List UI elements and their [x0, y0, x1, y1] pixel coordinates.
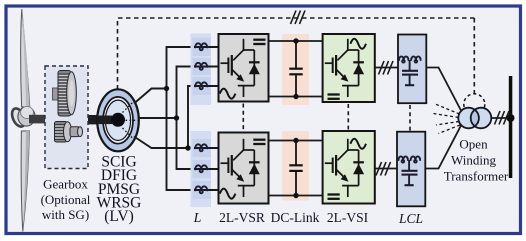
- wire transformer to grid bus: [491, 117, 509, 119]
- svg-text:Winding: Winding: [451, 153, 496, 168]
- generator terminal wire C with bottom phase a wire: [134, 137, 195, 149]
- DC-link highlight strip bottom: [282, 131, 309, 201]
- gearbox big gear: [53, 71, 77, 117]
- svg-text:2L-VSR: 2L-VSR: [219, 210, 265, 225]
- label: Gearbox (Optional with SG): [41, 177, 91, 223]
- svg-text:Transformer: Transformer: [444, 169, 509, 184]
- generator terminal wire B: [139, 117, 177, 119]
- wind turbine third blade ring: [9, 106, 27, 128]
- inductor L5: [195, 165, 207, 172]
- U1 IGBT and diode internals: [220, 39, 266, 99]
- three-phase slashes on dashed line: [291, 11, 306, 25]
- L filter highlight strip top: [191, 34, 212, 106]
- DC-link highlight strip top: [282, 34, 309, 105]
- svg-text:(Optional: (Optional: [41, 192, 91, 207]
- dashed feedback drop to phantom winding: [473, 18, 475, 94]
- gearbox dashed enclosure: [45, 66, 88, 169]
- DC rails bottom row: [269, 141, 323, 196]
- gearbox small gear: [55, 122, 83, 143]
- wind turbine hub: [18, 107, 35, 127]
- dashed rays of open winding: [434, 104, 461, 134]
- junction dot C: [185, 145, 190, 150]
- LCL filter box bottom: [397, 132, 425, 207]
- grid bus bar: [509, 76, 513, 178]
- inductor L6: [195, 186, 207, 193]
- dashed link between LCL boxes: [409, 105, 411, 131]
- grid bus junction dot: [507, 114, 515, 122]
- three-phase slashes bottom row: [376, 162, 391, 176]
- generator terminal wire A: [134, 89, 167, 104]
- open winding transformer coils: [458, 108, 491, 129]
- dashed link between VSI boxes: [347, 104, 349, 130]
- label: SCIG DFIG PMSG WRSG (LV): [97, 154, 142, 226]
- inductor L4: [195, 144, 207, 151]
- 2L-VSI inverter U4 box: [323, 131, 375, 204]
- 2L-VSI inverter U3 box: [323, 34, 375, 102]
- inductor L1: [195, 43, 207, 50]
- label: Open Winding Transformer: [444, 137, 509, 184]
- dashed feedback line generator to transformer: [118, 18, 475, 90]
- dashed link between VSR boxes: [242, 104, 244, 132]
- svg-text:(LV): (LV): [104, 208, 134, 225]
- three-phase slashes at grid: [495, 111, 510, 125]
- DC-link capacitor C1: [289, 41, 302, 97]
- U2 IGBT and diode internals: [220, 139, 266, 199]
- generator machine (SCIG/DFIG/PMSG/WRSG): [97, 89, 139, 151]
- svg-text:with SG): with SG): [42, 207, 89, 222]
- high-speed shaft (gearbox to generator): [74, 115, 104, 124]
- transformer phantom dashed winding: [464, 94, 485, 115]
- low-speed shaft (turbine to gearbox): [29, 115, 59, 124]
- svg-text:Gearbox: Gearbox: [43, 177, 88, 192]
- junction dot A: [164, 86, 169, 91]
- DC-link capacitor C2: [289, 141, 302, 196]
- L filter highlight strip bottom: [191, 131, 212, 207]
- wire LCL1 to transformer: [426, 68, 461, 111]
- U3 IGBT and diode internals: [325, 39, 364, 97]
- three-phase slashes top row: [379, 61, 394, 75]
- C1 junction dots: [293, 38, 298, 43]
- wire LCL2 to transformer: [425, 126, 461, 169]
- LCL1 internals: [399, 56, 421, 85]
- wind turbine blade down: [21, 131, 29, 232]
- 2L-VSR converter U1 box: [219, 34, 269, 102]
- vertical bus V3 (phase C split): [188, 86, 195, 148]
- wire VSI2 to LCL2: [375, 168, 397, 170]
- junction dot B: [174, 115, 179, 120]
- wire generator L to VSR1 rows: [194, 47, 219, 190]
- inductor L3: [195, 82, 207, 89]
- LCL2 internals: [399, 156, 421, 185]
- wind turbine blade up: [21, 9, 30, 107]
- svg-text:L: L: [193, 211, 202, 226]
- vertical bus V2 (phase B split): [177, 67, 195, 170]
- svg-text:DC-Link: DC-Link: [271, 210, 320, 225]
- 2L-VSR converter U2 box: [219, 133, 269, 204]
- wire VSI1 to LCL1: [375, 67, 398, 69]
- svg-text:2L-VSI: 2L-VSI: [327, 210, 369, 225]
- DC rails top row: [269, 41, 323, 97]
- svg-text:Open: Open: [459, 137, 488, 152]
- U4 IGBT and diode internals: [325, 139, 364, 197]
- svg-text:LCL: LCL: [398, 211, 423, 226]
- vertical bus V1 (phase A split): [167, 47, 195, 190]
- C2 junction dots: [293, 138, 298, 143]
- inductor L2: [195, 63, 207, 70]
- LCL filter box top: [398, 35, 426, 104]
